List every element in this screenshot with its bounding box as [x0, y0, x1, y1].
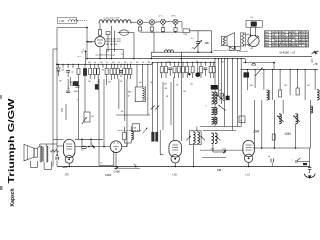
- wire vertical x280.1: [279, 70, 281, 90]
- svg-text:2b: 2b: [118, 62, 120, 64]
- wire x53 to horn: [52, 162, 54, 167]
- dark comp on bus: [303, 163, 307, 165]
- wire verticals to cans: [273, 100, 275, 148]
- wire V2 stem: [115, 153, 117, 167]
- speaker magnet circle: [248, 35, 259, 46]
- junction y139: [81, 138, 83, 140]
- can coil 2: [296, 114, 298, 124]
- wire res-tube: [99, 35, 101, 37]
- cluster wires: [123, 127, 125, 133]
- wire V2 right: [122, 146, 127, 148]
- trimmer arrow: [194, 40, 202, 49]
- svg-text:+x 4μ5 4μ5 C 450: +x 4μ5 4μ5 C 450: [103, 17, 120, 19]
- wire vertical x305.1: [304, 70, 306, 100]
- resistor R x187.2: [186, 62, 189, 78]
- wire V2 left: [75, 146, 110, 148]
- wire y157: [202, 156, 226, 158]
- wire disc bottom: [193, 145, 195, 160]
- cluster dashed top: [118, 130, 142, 132]
- wire vertical x78.5: [78, 79, 80, 139]
- small box pair A: [230, 46, 235, 50]
- switch right: [295, 161, 297, 163]
- wire vertical x118.9: [118, 79, 120, 109]
- dark cap right: [226, 96, 229, 100]
- field coil box: [246, 21, 262, 28]
- wire lamp3 drop: [162, 24, 164, 27]
- wire vertical x104.0: [103, 79, 105, 147]
- coil right 2: [317, 90, 319, 100]
- dark resistor mid: [95, 85, 98, 90]
- wire y115: [116, 114, 150, 116]
- bus bottom second: [114, 167, 140, 169]
- svg-text:4M 4BL 4BC 4M5: 4M 4BL 4BC 4M5: [106, 39, 121, 41]
- wire y126: [200, 126, 241, 128]
- wire x212 drop: [211, 31, 213, 52]
- wire lamp1-2: [143, 21, 150, 23]
- wire vertical x98.2: [97, 79, 99, 90]
- wire V4 stem: [248, 162, 250, 166]
- bus tick dark: [116, 167, 119, 169]
- wire vertical x215.0: [214, 59, 216, 127]
- block box J4B: [132, 124, 139, 131]
- resistor under lamp2: [150, 27, 153, 31]
- dark circle node: [195, 72, 200, 77]
- earth series cap: [308, 167, 312, 169]
- wire y139 left: [53, 138, 63, 140]
- wire y62 right: [243, 62, 274, 64]
- wire x181 long vertical: [180, 52, 182, 141]
- wire vertical x127.0: [126, 79, 128, 147]
- junction bus H1: [86, 58, 88, 60]
- bus y148: [253, 147, 311, 149]
- dark tick: [224, 150, 227, 153]
- svg-text:0+4190 ~ u7: 0+4190 ~ u7: [280, 50, 296, 54]
- resistor R x174.5: [173, 62, 176, 78]
- capacitor C x205.3: [203, 62, 207, 76]
- wire canB drop: [212, 144, 214, 153]
- box arrow x222: [220, 93, 223, 99]
- svg-text:4M 4BL 4BC 4M5: 4M 4BL 4BC 4M5: [106, 41, 121, 43]
- wire x111 vertical: [111, 26, 113, 59]
- wire lamp3-4: [166, 21, 174, 23]
- box right edge: [239, 116, 245, 123]
- svg-text:4BL 4BC 4M: 4BL 4BC 4M: [106, 44, 117, 46]
- wire V3 stem: [174, 163, 176, 167]
- wire tuner top: [99, 23, 101, 29]
- svg-text:Tω: Tω: [121, 54, 124, 56]
- wire vertical x315.1: [314, 70, 316, 90]
- plane symbol: [312, 51, 319, 55]
- dark box x75: [73, 82, 78, 86]
- junction dark: [188, 73, 190, 75]
- wire lamp4 drop: [175, 24, 177, 27]
- resistor R x201.0: [200, 62, 203, 78]
- wire AA2 left: [87, 41, 95, 43]
- bus bottom main: [57, 165, 310, 167]
- loop under V2: [98, 151, 100, 166]
- wire y130: [203, 130, 236, 132]
- resistor under lamp4: [174, 28, 177, 32]
- cluster coil: [131, 131, 133, 139]
- svg-text:1M: 1M: [91, 116, 94, 118]
- can arrow 2: [293, 116, 300, 123]
- wires field to magnet: [250, 27, 252, 36]
- wire x312 right edge: [311, 59, 313, 63]
- wire vertical x255.1: [254, 70, 256, 88]
- wire vertical x290.1: [289, 70, 291, 95]
- wire lamp4 right: [178, 21, 182, 23]
- svg-text:49°C: 49°C: [172, 15, 177, 17]
- can coil right edge: [311, 106, 313, 113]
- speaker cone lines: [227, 33, 235, 37]
- tube V3: [169, 141, 182, 158]
- vertical x147: [147, 64, 149, 115]
- IF canB coil R: [215, 133, 217, 144]
- wire right edge drop: [309, 148, 311, 167]
- pot arrow mid: [143, 128, 148, 134]
- disc coil R: [198, 132, 200, 144]
- svg-text:4M9: 4M9: [74, 91, 78, 93]
- svg-text:o: o: [292, 160, 293, 162]
- wire coil-magnet bottom: [245, 43, 248, 46]
- wire x151 stub: [150, 52, 152, 58]
- small box pair B: [236, 46, 241, 50]
- IF coil chain A: [212, 92, 215, 104]
- bus H2 right: [152, 61, 216, 63]
- resistor x273: [272, 134, 275, 140]
- bus H3 right: [241, 69, 319, 71]
- wire vertical x241.2: [240, 59, 242, 127]
- dial lamp 1: [137, 20, 142, 25]
- junction antenna: [86, 27, 88, 29]
- svg-text:L+2: L+2: [246, 173, 251, 177]
- wire vertical x221.6: [221, 59, 223, 104]
- svg-text:4μ: 4μ: [268, 156, 270, 158]
- wire V1 top: [57, 145, 63, 147]
- svg-text:≠2: ≠2: [100, 162, 102, 165]
- svg-text:16M: 16M: [253, 130, 260, 134]
- label L60 box: [58, 17, 77, 23]
- svg-text:2b: 2b: [128, 96, 130, 98]
- diode right: [252, 63, 256, 65]
- skew tick marks on verticals: [151, 106, 155, 110]
- wire vertical x106.6: [106, 79, 108, 85]
- svg-text:2M: 2M: [183, 91, 186, 93]
- can arrow 1: [277, 116, 284, 123]
- coil L60: [69, 20, 78, 22]
- wire x170 down: [170, 82, 172, 125]
- wire x154 drop: [153, 32, 155, 52]
- junction bus H2 left: [56, 63, 58, 65]
- tube U1 AA2 circle: [95, 37, 105, 47]
- wire vertical x263.9: [263, 70, 265, 90]
- wire jog: [53, 48, 57, 50]
- tube V2 electrodes: [114, 143, 116, 145]
- bus H1: [87, 58, 245, 60]
- junction y52: [197, 51, 199, 53]
- coil box upper: [135, 87, 145, 102]
- wire left bus x53: [52, 49, 54, 162]
- IF canB coil L: [212, 133, 214, 144]
- IF can dark box: [211, 85, 218, 89]
- dial lamp 4: [173, 19, 178, 24]
- wire x173 down: [173, 77, 175, 141]
- wire x114 vertical: [113, 31, 115, 53]
- resistor under lamp1: [138, 27, 141, 31]
- svg-text:C4B2: C4B2: [105, 173, 112, 177]
- svg-text:g.mit Abstimmanzeige: g.mit Abstimmanzeige: [96, 53, 116, 56]
- wire AA2 stem: [99, 47, 101, 59]
- junctions heater bottom: [151, 31, 152, 32]
- svg-text:L42: L42: [173, 173, 178, 177]
- svg-text:ooo: ooo: [81, 150, 84, 152]
- svg-text:4μ: 4μ: [134, 164, 136, 166]
- wire to x212: [190, 30, 212, 32]
- wire vertical x247.5: [247, 70, 249, 90]
- wire heater to lamps: [131, 21, 137, 23]
- wire oval right: [131, 32, 135, 34]
- resistor R x213.8: [212, 62, 215, 78]
- wire vertical x124.8: [124, 79, 126, 121]
- IF canB arrow: [216, 136, 221, 141]
- pot arrow right: [255, 68, 263, 76]
- wire trimmer top: [197, 31, 199, 42]
- discriminator box: [189, 131, 201, 145]
- disc coil L: [193, 132, 195, 144]
- transformer winding 1: [40, 146, 42, 162]
- resistor right 1: [279, 90, 282, 97]
- small comp right1: [270, 159, 272, 163]
- pot box left: [84, 112, 90, 122]
- wire trimmer bottom: [197, 43, 199, 52]
- capacitor x57: [55, 157, 57, 160]
- tube V2 circle: [110, 141, 122, 153]
- drops from y139: [81, 139, 83, 146]
- transformer winding 2: [46, 146, 48, 162]
- wire coil-magnet top: [245, 33, 250, 35]
- cluster resistor: [123, 132, 126, 140]
- resistor R x166.0: [165, 62, 168, 78]
- wire vertical x227.6: [227, 59, 229, 100]
- svg-text:Triumph G/GW: Triumph G/GW: [7, 98, 16, 184]
- svg-text:C4B3: C4B3: [114, 170, 121, 174]
- wire winding tops: [39, 144, 41, 146]
- wire secondary loop: [43, 162, 45, 169]
- wire lamp2-3: [155, 21, 161, 23]
- junction y62: [273, 62, 275, 64]
- wire lamp1 drop: [139, 25, 141, 27]
- svg-text:+7B: +7B: [313, 63, 318, 66]
- dial lamp 2: [149, 20, 154, 25]
- capacitor C x170.2: [168, 62, 172, 76]
- wires bus to coil box: [136, 64, 138, 87]
- speaker voice coil: [240, 33, 245, 46]
- arrow under V1: [63, 166, 68, 169]
- small comp x108: [106, 32, 110, 35]
- trimmer capacitor C: [196, 41, 200, 43]
- resistor horizontal left: [51, 149, 59, 152]
- voltage table: [265, 31, 309, 47]
- grid comp dark: [92, 145, 94, 148]
- coil on y52: [165, 50, 174, 52]
- IF coil chain B: [212, 108, 215, 115]
- wire x160 drop: [159, 130, 161, 155]
- wire y52 bottom: [151, 51, 211, 53]
- wire x66 seg: [65, 104, 67, 120]
- resistor R x178.7: [177, 62, 180, 78]
- svg-text:24B: 24B: [217, 169, 222, 172]
- coupling cap oval: [81, 146, 86, 149]
- resistor R C60: [183, 29, 190, 33]
- horn speaker: [24, 144, 34, 160]
- horn box: [34, 148, 38, 157]
- wire vertical x99.0: [98, 79, 100, 151]
- disc arrow R: [200, 136, 205, 141]
- wire vertical x232.6: [232, 59, 234, 131]
- bus H1 upper: [152, 55, 312, 57]
- svg-text:2b: 2b: [196, 61, 198, 63]
- paper scan mark: [0, 95, 2, 99]
- dark coil pair: [152, 132, 154, 141]
- bus H2 jog: [151, 62, 153, 64]
- wire left bus x57: [56, 49, 58, 147]
- wire vertical x111.5: [111, 79, 113, 80]
- wire vertical x68.1: [67, 79, 69, 90]
- coil right 1: [267, 90, 269, 100]
- wire horn top: [38, 146, 40, 148]
- wire x163 down: [162, 82, 164, 130]
- dashed wire antenna: [78, 20, 88, 22]
- heater choke coil: [99, 20, 131, 23]
- wire disc top: [196, 127, 198, 131]
- svg-text:4M4: 4M4: [128, 92, 132, 94]
- resistor R x210.6: [209, 62, 212, 78]
- bus H2 left: [56, 63, 152, 65]
- svg-text:Kapsch: Kapsch: [10, 188, 16, 206]
- svg-text:40B: 40B: [205, 42, 210, 45]
- capacitor mid2: [66, 90, 70, 92]
- wire y139 right: [75, 138, 103, 140]
- IF coil chain C: [212, 117, 215, 124]
- oscillator oval: [120, 30, 129, 36]
- dark box right: [244, 73, 249, 78]
- wire tube V3 left: [160, 154, 163, 156]
- wire heater bottom bus: [140, 31, 183, 33]
- svg-text:z.Trennstelle: z.Trennstelle: [237, 50, 248, 53]
- resistor above AA2: [98, 30, 101, 35]
- wire x87 drop: [86, 28, 88, 59]
- resistor under lamp3: [161, 28, 164, 32]
- tube V1: [63, 140, 74, 158]
- svg-text:L 60: L 60: [59, 19, 65, 23]
- wire left drop: [56, 28, 58, 50]
- junction bottom: [68, 166, 70, 168]
- IF arrow 1: [217, 95, 224, 102]
- can coil 1: [279, 114, 281, 124]
- disc arrow L: [186, 136, 191, 141]
- svg-text:4b: 4b: [240, 120, 242, 122]
- transformer core: [42, 147, 44, 162]
- wire disc drop joins bus: [193, 160, 195, 167]
- resistor R x183.0: [182, 62, 185, 78]
- wire vertical x297.6: [297, 70, 299, 88]
- wire vertical x218.5: [218, 59, 220, 96]
- wire y150 to V4: [200, 149, 243, 151]
- paper scan mark 2: [0, 186, 3, 190]
- svg-text:2μ: 2μ: [72, 72, 74, 74]
- junction y148: [261, 147, 263, 149]
- wire vertical x237.7: [237, 59, 239, 127]
- wire x57 bottom: [56, 147, 58, 156]
- wire V1 stem: [68, 163, 70, 166]
- svg-text:4k: 4k: [219, 90, 221, 92]
- wire x245 stub: [245, 59, 247, 63]
- verticals x152/x157 to coil pair: [152, 62, 154, 132]
- svg-text:+M: +M: [120, 111, 123, 113]
- wire bracket: [106, 49, 123, 51]
- junction x85 label: [85, 51, 87, 53]
- svg-text:Lautsprecher zur Trennst.: Lautsprecher zur Trennst.: [213, 49, 235, 52]
- svg-text:16M: 16M: [284, 132, 291, 136]
- wire to pot: [84, 79, 86, 112]
- capacitor mid1: [76, 85, 80, 87]
- resistor R x192.6: [191, 62, 194, 78]
- wire vertical x224.6: [224, 59, 226, 127]
- resistor right 2: [296, 88, 299, 95]
- wire primary loop: [30, 161, 32, 168]
- speaker magnet slash: [249, 36, 259, 45]
- dial lamp 3: [161, 19, 166, 24]
- wire x274: [273, 63, 275, 70]
- L wire x70: [69, 77, 71, 85]
- earth anchor symbol: [304, 174, 315, 178]
- wire lamp2 drop: [151, 25, 153, 27]
- component row hanging from bus H2 (left): [56, 64, 60, 76]
- svg-text:J70: J70: [65, 173, 70, 177]
- resistor R x161.7: [160, 62, 163, 78]
- svg-text:+1°C: +1°C: [158, 15, 163, 17]
- wire vertical x272.6: [272, 70, 274, 100]
- tube V4: [243, 141, 255, 157]
- cap on x215: [213, 86, 217, 88]
- IF arrow 2: [218, 105, 225, 111]
- svg-text:4M: 4M: [165, 88, 168, 90]
- output transformer box: [222, 36, 228, 45]
- junction on grid wire: [88, 146, 90, 148]
- svg-text:2b: 2b: [142, 62, 144, 64]
- wire antenna horizontal: [57, 27, 87, 29]
